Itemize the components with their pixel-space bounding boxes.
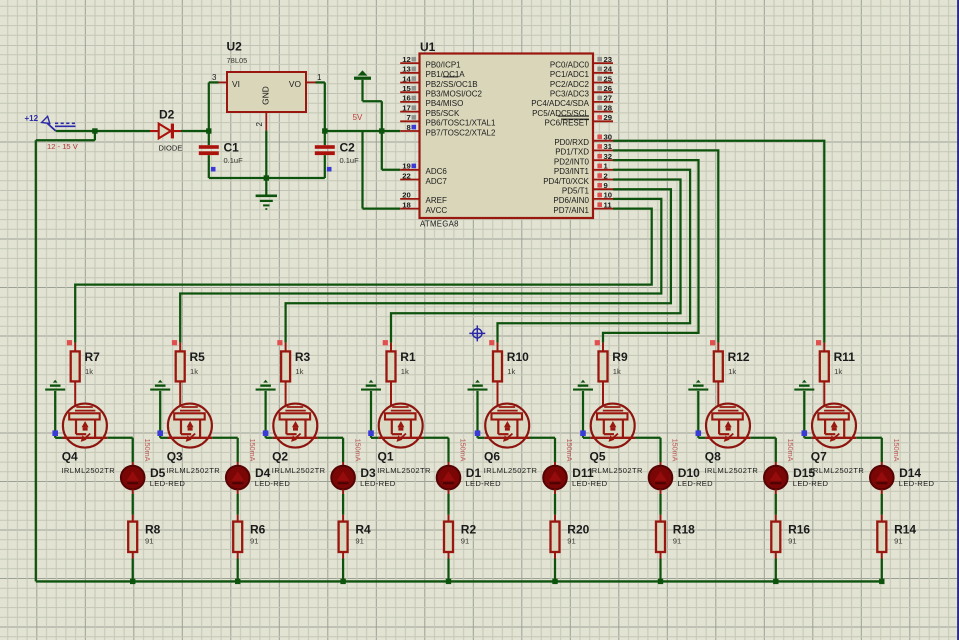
svg-text:91: 91: [567, 537, 575, 546]
svg-text:PD4/T0/XCK: PD4/T0/XCK: [543, 177, 589, 186]
svg-text:IRLML2502TR: IRLML2502TR: [484, 466, 538, 475]
svg-text:31: 31: [604, 142, 613, 151]
svg-text:ATMEGA8: ATMEGA8: [420, 220, 459, 229]
svg-text:PC2/ADC2: PC2/ADC2: [550, 80, 590, 89]
svg-text:R1: R1: [400, 350, 416, 364]
svg-text:1k: 1k: [295, 367, 303, 376]
svg-text:Q8: Q8: [705, 450, 721, 464]
svg-text:15: 15: [402, 84, 411, 93]
svg-text:C1: C1: [224, 141, 240, 155]
svg-text:+12: +12: [25, 114, 39, 123]
svg-text:22: 22: [402, 171, 411, 180]
svg-text:ADC7: ADC7: [426, 177, 448, 186]
svg-text:R5: R5: [190, 350, 206, 364]
svg-text:AREF: AREF: [426, 196, 447, 205]
svg-text:PB1/OC1A: PB1/OC1A: [426, 70, 466, 79]
svg-text:LED-RED: LED-RED: [360, 479, 396, 488]
svg-text:R7: R7: [85, 350, 101, 364]
svg-text:13: 13: [402, 65, 411, 74]
svg-text:PD2/INT0: PD2/INT0: [554, 157, 590, 166]
svg-text:12: 12: [402, 55, 411, 64]
svg-text:LED-RED: LED-RED: [466, 479, 502, 488]
svg-text:150mA: 150mA: [892, 439, 901, 462]
svg-text:C2: C2: [340, 141, 356, 155]
svg-text:ADC6: ADC6: [426, 167, 448, 176]
svg-text:PC0/ADC0: PC0/ADC0: [550, 60, 590, 69]
svg-text:19: 19: [402, 162, 411, 171]
svg-text:PB7/TOSC2/XTAL2: PB7/TOSC2/XTAL2: [426, 128, 497, 137]
svg-text:2: 2: [255, 121, 264, 126]
svg-text:R11: R11: [834, 350, 856, 364]
svg-text:150mA: 150mA: [565, 439, 574, 462]
svg-text:IRLML2502TR: IRLML2502TR: [272, 466, 326, 475]
svg-text:1k: 1k: [401, 367, 409, 376]
svg-text:R8: R8: [145, 523, 161, 537]
svg-text:LED-RED: LED-RED: [150, 479, 186, 488]
svg-text:IRLML2502TR: IRLML2502TR: [377, 466, 431, 475]
svg-text:78L05: 78L05: [227, 56, 248, 65]
svg-text:91: 91: [250, 537, 258, 546]
svg-text:R4: R4: [355, 523, 371, 537]
svg-text:PC4/ADC4/SDA: PC4/ADC4/SDA: [531, 99, 589, 108]
svg-text:Q5: Q5: [590, 450, 606, 464]
svg-text:PC1/ADC1: PC1/ADC1: [550, 70, 590, 79]
svg-text:AVCC: AVCC: [426, 206, 448, 215]
svg-text:R2: R2: [461, 523, 477, 537]
svg-text:20: 20: [402, 191, 411, 200]
svg-text:1k: 1k: [190, 367, 198, 376]
svg-text:R18: R18: [673, 523, 695, 537]
svg-text:9: 9: [604, 181, 608, 190]
svg-text:IRLML2502TR: IRLML2502TR: [166, 466, 220, 475]
svg-text:PD1/TXD: PD1/TXD: [555, 148, 589, 157]
svg-text:GND: GND: [261, 86, 271, 105]
svg-text:DIODE: DIODE: [159, 144, 183, 153]
svg-text:14: 14: [402, 74, 411, 83]
svg-text:PD6/AIN0: PD6/AIN0: [553, 196, 589, 205]
svg-text:91: 91: [355, 537, 363, 546]
svg-text:Q3: Q3: [167, 450, 183, 464]
svg-text:25: 25: [604, 74, 613, 83]
svg-text:12 - 15 V: 12 - 15 V: [47, 142, 79, 151]
svg-text:R14: R14: [894, 523, 916, 537]
svg-text:3: 3: [212, 73, 217, 82]
svg-text:23: 23: [604, 55, 613, 64]
svg-text:10: 10: [604, 191, 613, 200]
svg-text:IRLML2502TR: IRLML2502TR: [589, 466, 643, 475]
svg-text:150mA: 150mA: [353, 439, 362, 462]
svg-text:R9: R9: [612, 350, 628, 364]
svg-text:18: 18: [402, 200, 411, 209]
svg-text:PD7/AIN1: PD7/AIN1: [553, 206, 589, 215]
svg-text:1k: 1k: [613, 367, 621, 376]
svg-text:32: 32: [604, 152, 613, 161]
svg-text:1k: 1k: [728, 367, 736, 376]
svg-text:17: 17: [402, 103, 411, 112]
svg-text:R10: R10: [507, 350, 529, 364]
svg-text:IRLML2502TR: IRLML2502TR: [61, 466, 115, 475]
svg-text:Q7: Q7: [811, 450, 827, 464]
svg-text:0.1uF: 0.1uF: [224, 156, 244, 165]
svg-text:29: 29: [604, 113, 613, 122]
svg-text:PB0/ICP1: PB0/ICP1: [426, 60, 462, 69]
svg-text:PD3/INT1: PD3/INT1: [554, 167, 590, 176]
svg-text:1k: 1k: [85, 367, 93, 376]
svg-text:R16: R16: [788, 523, 810, 537]
svg-text:150mA: 150mA: [786, 439, 795, 462]
svg-text:R3: R3: [295, 350, 311, 364]
svg-text:PD0/RXD: PD0/RXD: [554, 138, 589, 147]
svg-text:7: 7: [407, 113, 411, 122]
svg-text:150mA: 150mA: [248, 439, 257, 462]
svg-text:VO: VO: [289, 79, 302, 89]
svg-text:91: 91: [673, 537, 681, 546]
svg-text:27: 27: [604, 94, 613, 103]
svg-text:Q1: Q1: [378, 450, 394, 464]
svg-text:IRLML2502TR: IRLML2502TR: [811, 466, 865, 475]
svg-text:1k: 1k: [507, 367, 515, 376]
svg-text:Q2: Q2: [272, 450, 288, 464]
svg-text:PD5/T1: PD5/T1: [562, 187, 590, 196]
svg-text:LED-RED: LED-RED: [572, 479, 608, 488]
svg-text:30: 30: [604, 133, 613, 142]
svg-text:8: 8: [407, 123, 412, 132]
svg-text:0.1uF: 0.1uF: [340, 156, 360, 165]
svg-text:PC6/RESET: PC6/RESET: [545, 119, 590, 128]
svg-text:Q4: Q4: [62, 450, 78, 464]
svg-text:LED-RED: LED-RED: [793, 479, 829, 488]
svg-text:150mA: 150mA: [143, 439, 152, 462]
svg-text:LED-RED: LED-RED: [255, 479, 291, 488]
svg-text:16: 16: [402, 94, 411, 103]
svg-text:5V: 5V: [353, 113, 363, 122]
svg-text:PB2/SS/OC1B: PB2/SS/OC1B: [426, 80, 478, 89]
svg-text:U2: U2: [227, 40, 243, 54]
svg-text:91: 91: [894, 537, 902, 546]
svg-text:24: 24: [604, 65, 613, 74]
svg-text:Q6: Q6: [484, 450, 500, 464]
svg-text:IRLML2502TR: IRLML2502TR: [705, 466, 759, 475]
svg-text:U1: U1: [420, 40, 436, 54]
svg-text:PB5/SCK: PB5/SCK: [426, 109, 460, 118]
svg-text:R20: R20: [567, 523, 589, 537]
svg-text:26: 26: [604, 84, 613, 93]
svg-text:91: 91: [788, 537, 796, 546]
svg-text:91: 91: [461, 537, 469, 546]
svg-text:150mA: 150mA: [671, 439, 680, 462]
svg-text:R6: R6: [250, 523, 266, 537]
svg-text:1: 1: [317, 73, 322, 82]
svg-text:1k: 1k: [834, 367, 842, 376]
svg-text:PC3/ADC3: PC3/ADC3: [550, 90, 590, 99]
svg-text:28: 28: [604, 103, 613, 112]
svg-text:11: 11: [604, 200, 613, 209]
svg-text:LED-RED: LED-RED: [899, 479, 935, 488]
svg-text:PB3/MOSI/OC2: PB3/MOSI/OC2: [426, 90, 483, 99]
svg-text:1: 1: [604, 162, 609, 171]
svg-text:D2: D2: [159, 108, 175, 122]
svg-text:PB4/MISO: PB4/MISO: [426, 99, 464, 108]
svg-text:VI: VI: [232, 79, 240, 89]
svg-text:LED-RED: LED-RED: [678, 479, 714, 488]
svg-text:2: 2: [604, 171, 608, 180]
svg-text:R12: R12: [728, 350, 750, 364]
svg-text:150mA: 150mA: [459, 439, 468, 462]
svg-text:PB6/TOSC1/XTAL1: PB6/TOSC1/XTAL1: [426, 119, 497, 128]
svg-text:91: 91: [145, 537, 153, 546]
